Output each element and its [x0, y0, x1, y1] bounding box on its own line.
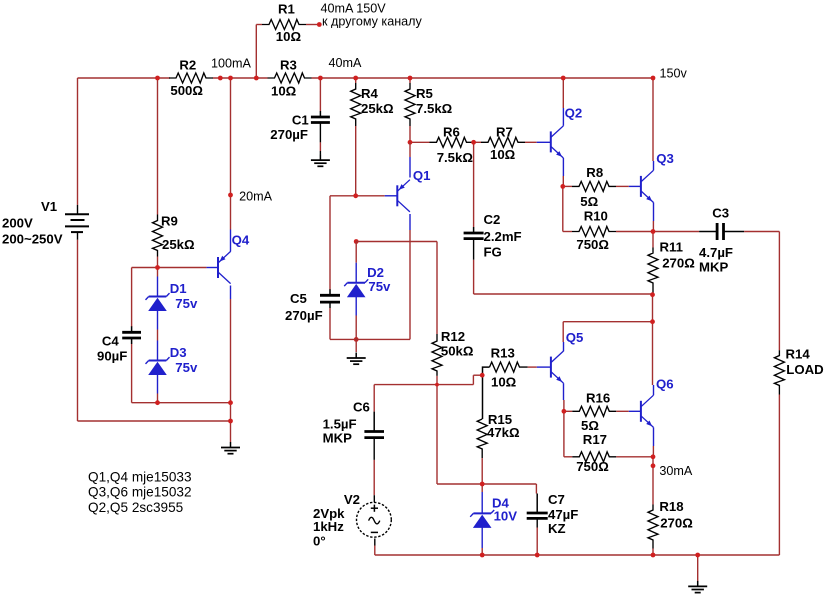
svg-text:V2: V2	[344, 492, 360, 507]
svg-text:R1: R1	[278, 2, 295, 17]
svg-text:Q5: Q5	[566, 330, 584, 345]
svg-text:10Ω: 10Ω	[276, 29, 302, 44]
svg-text:270Ω: 270Ω	[662, 255, 695, 270]
svg-text:LOAD: LOAD	[786, 362, 823, 377]
svg-text:R3: R3	[280, 58, 297, 73]
svg-text:R16: R16	[586, 391, 610, 406]
svg-text:R11: R11	[660, 239, 683, 254]
svg-text:5Ω: 5Ω	[581, 418, 599, 433]
svg-text:R12: R12	[441, 329, 465, 344]
svg-text:R6: R6	[443, 124, 460, 139]
svg-text:KZ: KZ	[548, 521, 566, 536]
svg-text:C4: C4	[102, 333, 120, 348]
svg-text:Q3: Q3	[656, 151, 674, 166]
svg-text:Q6: Q6	[656, 376, 674, 391]
svg-text:MKP: MKP	[699, 260, 729, 275]
svg-text:75v: 75v	[368, 279, 391, 294]
svg-text:10Ω: 10Ω	[271, 84, 297, 99]
svg-text:Q2: Q2	[565, 105, 583, 120]
svg-text:47µF: 47µF	[548, 507, 578, 522]
svg-text:30mA: 30mA	[659, 464, 692, 478]
svg-text:750Ω: 750Ω	[576, 459, 609, 474]
svg-text:R18: R18	[659, 499, 683, 514]
svg-text:0°: 0°	[313, 533, 326, 548]
svg-text:C5: C5	[290, 291, 307, 306]
svg-text:20mA: 20mA	[239, 189, 272, 203]
svg-text:к другому каналу: к другому каналу	[322, 15, 423, 29]
svg-text:270µF: 270µF	[270, 127, 308, 142]
svg-text:10V: 10V	[494, 509, 518, 524]
svg-text:47kΩ: 47kΩ	[487, 425, 520, 440]
svg-text:Q3,Q6 mje15032: Q3,Q6 mje15032	[88, 484, 192, 499]
svg-text:270µF: 270µF	[285, 308, 323, 323]
svg-text:75v: 75v	[175, 296, 198, 311]
svg-text:R7: R7	[496, 124, 513, 139]
svg-text:FG: FG	[484, 244, 502, 259]
svg-text:750Ω: 750Ω	[576, 237, 609, 252]
svg-text:R17: R17	[583, 432, 607, 447]
svg-text:7.5kΩ: 7.5kΩ	[437, 150, 474, 165]
svg-text:1kHz: 1kHz	[313, 519, 344, 534]
svg-text:1.5µF: 1.5µF	[323, 417, 357, 432]
svg-text:R5: R5	[416, 86, 433, 101]
svg-text:40mA 150V: 40mA 150V	[321, 2, 387, 16]
svg-text:25kΩ: 25kΩ	[162, 237, 195, 252]
svg-text:R8: R8	[586, 165, 603, 180]
svg-text:25kΩ: 25kΩ	[361, 101, 394, 116]
svg-text:270Ω: 270Ω	[660, 515, 693, 530]
svg-text:200V: 200V	[2, 215, 33, 230]
svg-text:R2: R2	[179, 58, 196, 73]
svg-text:R13: R13	[491, 345, 515, 360]
svg-text:C2: C2	[484, 212, 501, 227]
svg-text:50kΩ: 50kΩ	[441, 343, 474, 358]
svg-text:R9: R9	[161, 214, 178, 229]
svg-text:150v: 150v	[660, 67, 688, 81]
svg-text:C6: C6	[353, 400, 370, 415]
svg-text:Q1: Q1	[413, 168, 431, 183]
svg-text:4.7µF: 4.7µF	[699, 245, 733, 260]
svg-text:R10: R10	[584, 209, 608, 224]
svg-text:10Ω: 10Ω	[490, 147, 516, 162]
svg-text:10Ω: 10Ω	[491, 374, 517, 389]
svg-text:D1: D1	[170, 281, 187, 296]
svg-text:90µF: 90µF	[97, 348, 127, 363]
svg-text:R4: R4	[361, 86, 379, 101]
svg-text:7.5kΩ: 7.5kΩ	[416, 101, 453, 116]
svg-text:100mA: 100mA	[211, 56, 252, 70]
svg-text:40mA: 40mA	[329, 56, 362, 70]
svg-text:Q1,Q4 mje15033: Q1,Q4 mje15033	[88, 469, 192, 484]
svg-text:2.2mF: 2.2mF	[484, 229, 522, 244]
svg-text:Q2,Q5 2sc3955: Q2,Q5 2sc3955	[88, 500, 183, 515]
svg-text:D2: D2	[367, 265, 384, 280]
svg-text:V1: V1	[41, 199, 57, 214]
svg-text:5Ω: 5Ω	[580, 194, 598, 209]
svg-text:C3: C3	[712, 206, 729, 221]
svg-text:D3: D3	[170, 345, 187, 360]
svg-text:500Ω: 500Ω	[170, 83, 203, 98]
svg-text:C1: C1	[292, 112, 309, 127]
svg-text:R14: R14	[786, 347, 811, 362]
svg-text:75v: 75v	[175, 360, 198, 375]
svg-text:C7: C7	[548, 492, 565, 507]
svg-text:200~250V: 200~250V	[2, 232, 63, 247]
svg-text:MKP: MKP	[323, 431, 353, 446]
svg-text:Q4: Q4	[232, 233, 250, 248]
